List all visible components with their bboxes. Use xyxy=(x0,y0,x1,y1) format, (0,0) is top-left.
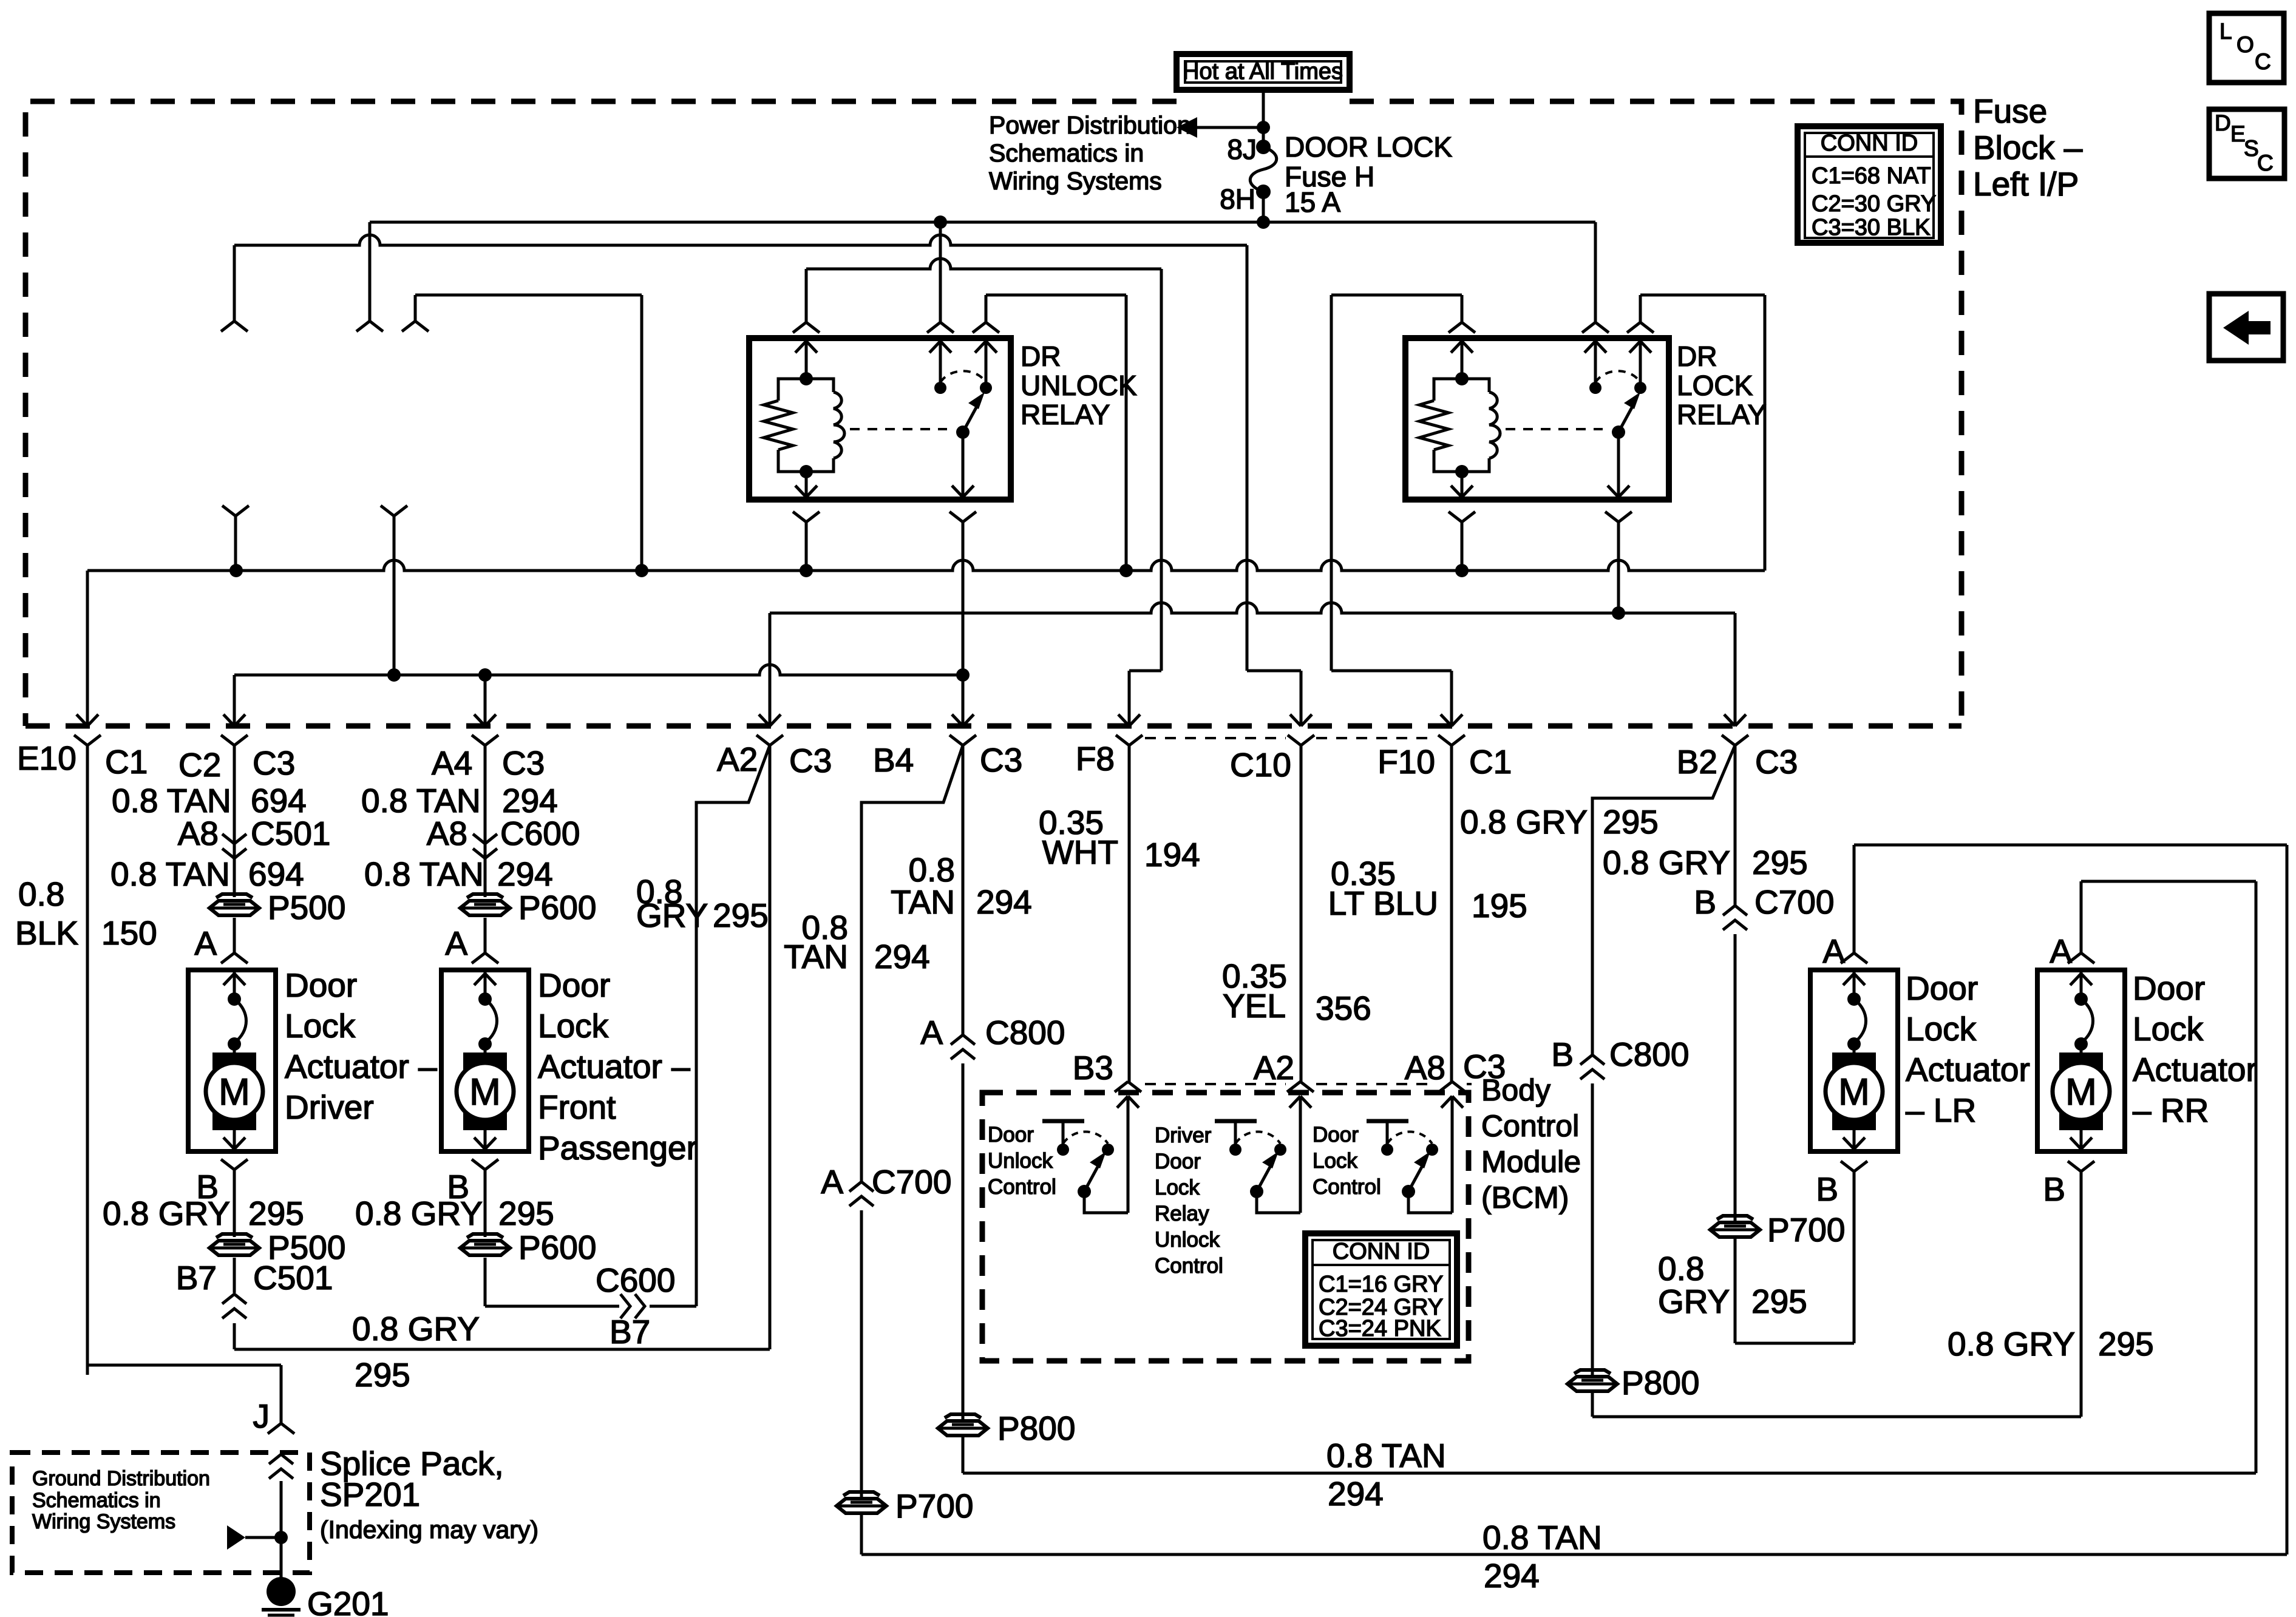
svg-text:C800: C800 xyxy=(985,1014,1065,1051)
svg-text:C501: C501 xyxy=(251,815,330,852)
svg-text:C1: C1 xyxy=(105,743,148,781)
lock relay contact dashed arc xyxy=(1595,371,1640,382)
label Ground Distribution note xyxy=(32,1467,210,1533)
svg-text:C3=24 PNK: C3=24 PNK xyxy=(1319,1316,1441,1341)
fuse block dashed box outline xyxy=(25,101,1961,726)
label B (LR) xyxy=(1816,1170,1838,1208)
svg-text:Control: Control xyxy=(1155,1254,1223,1278)
bus E (lock NC contact to bus1 right) xyxy=(1640,295,1765,571)
svg-text:DR: DR xyxy=(1677,341,1717,372)
svg-text:– RR: – RR xyxy=(2133,1091,2209,1129)
svg-text:Lock: Lock xyxy=(2133,1010,2204,1048)
label A8 (BCM) xyxy=(1405,1049,1445,1086)
svg-text:TAN: TAN xyxy=(784,938,848,975)
wire F10 riser xyxy=(1331,295,1452,726)
label E10 C1 xyxy=(17,739,148,781)
bus M (lock output) xyxy=(770,603,1735,620)
label Door Lock Actuator RR xyxy=(2133,969,2257,1129)
svg-text:Lock: Lock xyxy=(285,1007,356,1045)
BCM pin B3 xyxy=(1115,1082,1141,1213)
bus 1 (ground feed) xyxy=(87,560,1765,577)
label 0.8 TAN 694 (upper) xyxy=(112,782,307,819)
svg-text:C1=68 NAT: C1=68 NAT xyxy=(1812,163,1931,189)
unlock relay coil dashed link xyxy=(850,428,947,430)
svg-text:Control: Control xyxy=(1313,1175,1381,1199)
svg-text:TAN: TAN xyxy=(891,883,955,921)
svg-text:Actuator: Actuator xyxy=(2133,1051,2257,1088)
wire fuse-block connector stub x684 xyxy=(402,295,642,571)
bus 2 (unlock output) xyxy=(234,665,970,682)
label B (RR) xyxy=(2043,1170,2065,1208)
wire P700 to LR B xyxy=(1735,1238,1854,1343)
svg-text:B4: B4 xyxy=(873,741,914,779)
svg-text:Door: Door xyxy=(1906,969,1978,1007)
label Fuse Block - Left I/P xyxy=(1973,92,2083,203)
BCM pin A2 xyxy=(1287,1082,1314,1213)
label 0.35 YEL 356 xyxy=(1222,957,1371,1027)
svg-text:LT BLU: LT BLU xyxy=(1328,884,1438,922)
svg-text:RELAY: RELAY xyxy=(1021,399,1110,430)
door lock actuator RR box xyxy=(2037,970,2125,1151)
label 0.8 GRY 295 (B2) xyxy=(1603,844,1808,881)
svg-text:C600: C600 xyxy=(500,815,580,852)
svg-text:Passenger: Passenger xyxy=(538,1129,698,1167)
svg-text:0.8 GRY: 0.8 GRY xyxy=(103,1195,230,1232)
svg-text:E10: E10 xyxy=(17,739,76,777)
BCM pin A8 xyxy=(1439,1082,1466,1213)
label 0.8 GRY 295 (near P700) xyxy=(1658,1250,1807,1320)
label 0.8 TAN 294 (P700 run) xyxy=(1483,1519,1602,1595)
door lock actuator LR box xyxy=(1810,970,1898,1151)
unlock relay coil+resistor xyxy=(764,372,844,478)
svg-text:C3: C3 xyxy=(502,744,545,782)
svg-text:A4: A4 xyxy=(432,744,472,782)
unlock relay switch arm xyxy=(956,392,985,439)
svg-text:295: 295 xyxy=(498,1195,554,1232)
unlock relay NO pin xyxy=(973,322,999,394)
wire busA left drop to connector xyxy=(356,222,383,331)
connector B C700 xyxy=(1694,883,1834,930)
connector P500 lower xyxy=(209,1229,345,1266)
label DOOR LOCK Fuse H 15 A xyxy=(1285,131,1452,218)
svg-text:C1=16 GRY: C1=16 GRY xyxy=(1319,1272,1443,1297)
label Power Distribution note xyxy=(989,111,1191,195)
label A8 C600 xyxy=(427,815,580,852)
label Door Lock Actuator LR xyxy=(1906,969,2030,1129)
lock relay coil pin top xyxy=(1449,322,1475,379)
svg-text:P500: P500 xyxy=(268,889,345,926)
wire driver B xyxy=(221,1159,248,1237)
lock relay common pin xyxy=(1605,432,1632,613)
svg-text:B: B xyxy=(1816,1170,1838,1208)
bus B xyxy=(234,235,1247,245)
svg-text:Hot at All Times: Hot at All Times xyxy=(1183,59,1343,84)
svg-text:0.8: 0.8 xyxy=(1658,1250,1704,1287)
svg-text:O: O xyxy=(2237,32,2254,57)
wire passenger B to C600 xyxy=(485,1258,696,1318)
label Door Lock Actuator Driver xyxy=(285,966,437,1126)
svg-text:294: 294 xyxy=(502,782,558,819)
svg-text:A8: A8 xyxy=(1405,1049,1445,1086)
svg-text:M: M xyxy=(2065,1071,2097,1113)
BCM switch Door Lock Control xyxy=(1313,1121,1452,1213)
svg-text:B7: B7 xyxy=(610,1313,650,1351)
label 0.8 GRY 295 (bottom left bus) xyxy=(352,1310,480,1394)
svg-text:A2: A2 xyxy=(717,741,758,778)
label B2 C3 xyxy=(1677,743,1798,781)
svg-text:P700: P700 xyxy=(1767,1211,1845,1249)
lock relay coil dashed link xyxy=(1506,428,1603,430)
svg-text:J: J xyxy=(253,1397,270,1435)
svg-text:C3: C3 xyxy=(980,741,1022,779)
wire C800 to P800 gry xyxy=(1591,1083,1594,1375)
label C2 C3 xyxy=(178,744,295,784)
svg-text:150: 150 xyxy=(101,914,157,952)
svg-text:A: A xyxy=(445,924,467,962)
svg-text:295: 295 xyxy=(2098,1325,2154,1363)
bus A (fuse output) xyxy=(370,215,1595,229)
label 0.8 GRY 295 (pass) xyxy=(355,1195,554,1232)
label Door Lock Actuator Front Passenger xyxy=(538,966,698,1167)
svg-text:E: E xyxy=(2230,121,2246,146)
label A (pass) xyxy=(445,924,467,962)
wire B2 straight branch xyxy=(1734,745,1737,906)
bus D (lock coil to F10 riser) xyxy=(1331,295,1462,322)
svg-text:A2: A2 xyxy=(1254,1049,1294,1086)
wire fuse feed from Hot box xyxy=(1262,90,1265,147)
svg-text:Lock: Lock xyxy=(1155,1176,1200,1199)
svg-text:C3: C3 xyxy=(789,742,832,779)
CONN ID table (BCM) xyxy=(1305,1233,1457,1346)
motor M RR xyxy=(2053,970,2110,1149)
label C600 B7 (horizontal) xyxy=(596,1261,675,1351)
wire RR B fork xyxy=(2068,1161,2094,1417)
svg-text:P600: P600 xyxy=(518,889,596,926)
svg-text:Wiring Systems: Wiring Systems xyxy=(989,167,1162,195)
svg-text:C600: C600 xyxy=(596,1261,675,1299)
svg-text:294: 294 xyxy=(497,855,553,893)
svg-text:Schematics in: Schematics in xyxy=(989,139,1144,167)
svg-text:0.8 GRY: 0.8 GRY xyxy=(352,1310,480,1347)
label A4 C3 xyxy=(432,744,545,782)
BCM dashed box xyxy=(982,1093,1469,1361)
svg-text:BLK: BLK xyxy=(15,914,78,952)
label C10 xyxy=(1230,746,1291,784)
svg-text:294: 294 xyxy=(1328,1475,1384,1513)
svg-text:0.8: 0.8 xyxy=(18,875,64,913)
label 0.8 TAN 294 (x1419) xyxy=(784,909,930,975)
connector B C800 xyxy=(1551,1036,1689,1079)
svg-text:GRY: GRY xyxy=(1658,1283,1730,1320)
svg-text:356: 356 xyxy=(1316,989,1371,1027)
DR UNLOCK RELAY box xyxy=(749,338,1011,500)
svg-text:0.8 TAN: 0.8 TAN xyxy=(112,782,231,819)
svg-text:Driver: Driver xyxy=(285,1088,374,1126)
svg-text:Left I/P: Left I/P xyxy=(1973,165,2079,203)
fuse F-H 8J/8H xyxy=(1250,140,1277,222)
svg-text:0.8 TAN: 0.8 TAN xyxy=(1326,1437,1446,1474)
svg-text:(BCM): (BCM) xyxy=(1481,1181,1569,1215)
svg-text:P600: P600 xyxy=(518,1229,596,1266)
connector pair x388 xyxy=(222,506,249,571)
connector P800 (tan) xyxy=(938,1409,1075,1447)
power distribution arrow xyxy=(1177,117,1270,138)
svg-text:8J: 8J xyxy=(1227,134,1257,165)
label A2 (BCM) xyxy=(1254,1049,1294,1086)
DR LOCK RELAY box xyxy=(1405,338,1669,500)
wire riser unlock coil xyxy=(805,269,808,322)
svg-text:Lock: Lock xyxy=(1906,1010,1977,1048)
svg-text:F10: F10 xyxy=(1377,743,1435,781)
svg-text:294: 294 xyxy=(874,938,930,975)
svg-text:Schematics in: Schematics in xyxy=(32,1489,161,1512)
label 0.8 BLK 150 xyxy=(15,875,157,952)
svg-text:Actuator –: Actuator – xyxy=(538,1048,690,1085)
wire passenger B xyxy=(472,1159,498,1237)
label 8H xyxy=(1220,183,1255,215)
svg-text:A: A xyxy=(920,1014,943,1051)
motor M passenger xyxy=(457,970,514,1149)
svg-text:YEL: YEL xyxy=(1223,987,1286,1025)
label C3 (BCM) xyxy=(1463,1048,1506,1085)
motor M LR xyxy=(1826,970,1883,1149)
label 0.8 GRY 295 (driver) xyxy=(103,1195,304,1232)
wire A2 straight branch xyxy=(769,745,772,1349)
svg-text:B7: B7 xyxy=(176,1259,217,1297)
svg-text:Unlock: Unlock xyxy=(988,1149,1053,1173)
wire A2/C3 drop xyxy=(756,613,783,745)
label 0.8 TAN 294 (P800 run) xyxy=(1326,1437,1446,1513)
label J xyxy=(253,1397,270,1435)
Hot at All Times box xyxy=(1177,54,1350,90)
unlock relay common pin xyxy=(949,432,976,726)
label 8J xyxy=(1227,134,1257,165)
thin dashed connector line (fuse row) xyxy=(1145,737,1436,739)
label F10 C1 xyxy=(1377,743,1512,781)
svg-text:M: M xyxy=(469,1071,501,1113)
svg-text:C3: C3 xyxy=(253,744,295,782)
svg-text:295: 295 xyxy=(1752,844,1808,881)
BCM switch Driver Door Lock Relay Unlock Control xyxy=(1155,1121,1300,1278)
svg-text:694: 694 xyxy=(248,855,304,893)
svg-text:C2: C2 xyxy=(178,746,221,784)
wire P700 corner to LR A xyxy=(861,845,2287,1554)
svg-text:SP201: SP201 xyxy=(320,1476,420,1513)
label 0.8 TAN 294 (upper) xyxy=(361,782,558,819)
bus C1 (unlock coil to F8 riser) xyxy=(806,259,1161,269)
svg-text:C3=30 BLK: C3=30 BLK xyxy=(1812,215,1930,240)
label G201 xyxy=(307,1585,389,1617)
wire C10 pin xyxy=(1288,714,1314,1082)
svg-text:P800: P800 xyxy=(1622,1364,1699,1402)
back arrow icon box xyxy=(2209,294,2283,361)
svg-text:Door: Door xyxy=(988,1123,1034,1147)
door lock actuator driver box xyxy=(188,970,276,1151)
lock relay coil pin bottom xyxy=(1449,472,1475,571)
label A (LR) xyxy=(1822,932,1845,970)
motor M driver xyxy=(206,970,263,1149)
svg-text:F8: F8 xyxy=(1076,740,1115,778)
label 0.8 GRY 295 (A2 wire) xyxy=(636,873,769,934)
connector P700 (tan) xyxy=(837,1487,973,1525)
svg-text:0.8 GRY: 0.8 GRY xyxy=(1460,803,1588,841)
svg-text:M: M xyxy=(219,1071,250,1113)
lock relay switch arm xyxy=(1612,392,1640,439)
label B3 xyxy=(1073,1049,1113,1086)
svg-text:CONN ID: CONN ID xyxy=(1333,1239,1430,1264)
wire LR A fork xyxy=(1841,953,1867,963)
ground distribution dashed box xyxy=(12,1453,310,1573)
svg-text:0.8 GRY: 0.8 GRY xyxy=(1603,844,1730,881)
label 0.8 GRY 295 (x2623) xyxy=(1460,803,1659,841)
svg-text:0.8 TAN: 0.8 TAN xyxy=(364,855,484,893)
svg-text:C: C xyxy=(2257,151,2274,175)
label A (RR) xyxy=(2050,932,2072,970)
svg-text:Front: Front xyxy=(538,1088,616,1126)
svg-text:294: 294 xyxy=(1484,1557,1540,1595)
wire C800 to P800 xyxy=(962,1063,965,1419)
unlock relay coil pin top xyxy=(793,322,820,379)
svg-text:C3: C3 xyxy=(1755,743,1798,781)
svg-text:0.8 TAN: 0.8 TAN xyxy=(1483,1519,1602,1556)
svg-text:0.8 TAN: 0.8 TAN xyxy=(361,782,481,819)
svg-text:A8: A8 xyxy=(427,815,467,852)
svg-text:C501: C501 xyxy=(253,1259,333,1297)
wire C2/C3 drop xyxy=(221,675,248,897)
label 0.8 TAN 294 (x1588) xyxy=(891,851,1032,921)
connector P600 upper xyxy=(460,889,596,926)
svg-text:CONN ID: CONN ID xyxy=(1821,131,1918,156)
label B (pass) xyxy=(447,1168,469,1205)
svg-text:GRY: GRY xyxy=(636,897,708,934)
wire P500 to actuator xyxy=(221,918,248,963)
svg-text:295: 295 xyxy=(713,897,769,934)
svg-text:Driver: Driver xyxy=(1155,1124,1212,1147)
svg-text:8H: 8H xyxy=(1220,183,1255,215)
DESC icon box xyxy=(2209,109,2284,178)
svg-text:A8: A8 xyxy=(178,815,219,852)
label B7 C501 (driver) xyxy=(176,1259,333,1297)
bus C2 (unlock NC contact to bus1) xyxy=(986,295,1126,571)
svg-text:A: A xyxy=(821,1163,843,1201)
label DR UNLOCK RELAY xyxy=(1021,341,1137,430)
wire busB left drop to connector xyxy=(221,245,248,331)
svg-text:WHT: WHT xyxy=(1042,833,1118,871)
wire RR A fork xyxy=(2068,953,2094,963)
label 0.8 GRY 295 (RR B wire) xyxy=(1948,1325,2154,1363)
wire F8 riser xyxy=(1129,269,1161,726)
wire B2/C3 drop xyxy=(1722,613,1748,745)
connector P700 (gry) xyxy=(1710,1211,1845,1249)
wire riser unlock NO contact xyxy=(939,222,942,322)
svg-text:DOOR LOCK: DOOR LOCK xyxy=(1285,131,1452,163)
svg-text:B2: B2 xyxy=(1677,743,1717,781)
svg-text:295: 295 xyxy=(248,1195,304,1232)
unlock relay coil pin bottom xyxy=(793,472,820,571)
label A (driver) xyxy=(194,924,217,962)
svg-text:15 A: 15 A xyxy=(1285,186,1340,218)
svg-text:694: 694 xyxy=(251,782,307,819)
wire B4 slant branch xyxy=(861,745,963,1182)
ground G201 xyxy=(262,1537,301,1617)
svg-text:C700: C700 xyxy=(872,1163,951,1201)
wire A4/C3 drop xyxy=(472,675,498,897)
svg-text:Wiring Systems: Wiring Systems xyxy=(32,1510,175,1533)
svg-text:C2=30 GRY: C2=30 GRY xyxy=(1812,191,1936,217)
connector C600 upper xyxy=(473,834,497,858)
svg-text:0.8 GRY: 0.8 GRY xyxy=(1948,1325,2075,1363)
lock relay NC pin xyxy=(1582,322,1609,394)
label DR LOCK RELAY xyxy=(1677,341,1766,430)
lock relay coil+resistor xyxy=(1419,372,1500,478)
svg-text:Door: Door xyxy=(285,966,357,1004)
svg-text:M: M xyxy=(1838,1071,1870,1113)
svg-text:A: A xyxy=(194,924,217,962)
connector pair x649 xyxy=(381,506,407,675)
svg-text:L: L xyxy=(2220,19,2232,44)
label Body Control Module BCM xyxy=(1481,1073,1581,1215)
svg-text:S: S xyxy=(2244,136,2259,161)
CONN ID table (fuse block) xyxy=(1798,126,1941,243)
wire LR B fork xyxy=(1841,1161,1867,1343)
svg-text:B: B xyxy=(1551,1036,1574,1073)
svg-text:Door: Door xyxy=(1313,1123,1359,1147)
svg-text:295: 295 xyxy=(355,1356,410,1394)
label 0.8 TAN 294 (lower) xyxy=(364,855,553,893)
svg-text:C3: C3 xyxy=(1463,1048,1506,1085)
label Splice Pack SP201 xyxy=(320,1445,538,1544)
label A2 C3 xyxy=(717,741,832,779)
wire P600 to actuator xyxy=(472,918,498,963)
svg-text:B: B xyxy=(1694,883,1716,921)
label 0.35 LT BLU 195 xyxy=(1328,855,1527,924)
label F8 xyxy=(1076,740,1115,778)
lock relay NO pin xyxy=(1627,322,1654,394)
svg-text:Relay: Relay xyxy=(1155,1202,1209,1225)
svg-text:C: C xyxy=(2255,49,2271,74)
wire C700 to P700 gry xyxy=(1734,934,1737,1221)
connector P500 upper xyxy=(209,889,345,926)
BCM switch Door Unlock Control xyxy=(988,1121,1128,1213)
svg-text:RELAY: RELAY xyxy=(1677,399,1766,430)
svg-text:C700: C700 xyxy=(1754,883,1834,921)
wire driver B to bus xyxy=(222,1258,770,1349)
svg-text:Fuse: Fuse xyxy=(1973,92,2047,130)
label 0.35 WHT 194 xyxy=(1039,804,1200,873)
label B4 C3 xyxy=(873,741,1022,779)
door lock actuator passenger box xyxy=(441,970,529,1151)
svg-text:295: 295 xyxy=(1751,1283,1807,1320)
connector C501 upper xyxy=(222,834,246,858)
svg-text:C800: C800 xyxy=(1609,1036,1689,1073)
wire riser lock NO contact xyxy=(1594,222,1597,322)
svg-text:Control: Control xyxy=(1481,1109,1579,1143)
svg-text:Ground Distribution: Ground Distribution xyxy=(32,1467,210,1490)
svg-text:Actuator: Actuator xyxy=(1906,1051,2030,1088)
svg-text:194: 194 xyxy=(1144,836,1200,873)
svg-text:Module: Module xyxy=(1481,1145,1581,1179)
unlock relay NC pin xyxy=(927,322,954,394)
svg-text:Door: Door xyxy=(2133,969,2205,1007)
svg-text:Door: Door xyxy=(1155,1150,1201,1173)
svg-text:Block –: Block – xyxy=(1973,129,2083,166)
wire B4/C3 drop xyxy=(949,714,976,745)
label A8 C501 xyxy=(178,815,331,852)
connector P800 (gry) xyxy=(1567,1364,1699,1402)
wire B2 slant branch xyxy=(1592,745,1735,1055)
wire F8 pin xyxy=(1116,714,1143,1082)
svg-text:D: D xyxy=(2215,110,2231,135)
